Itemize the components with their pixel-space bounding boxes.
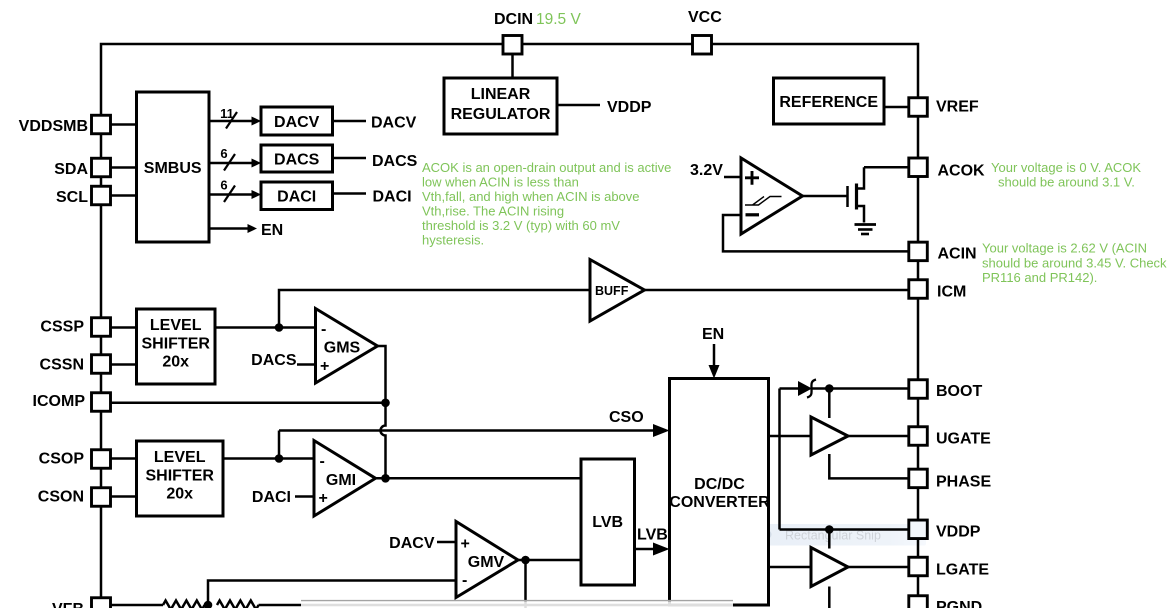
pin VDDSMB (92, 115, 111, 134)
pin VCC (693, 36, 712, 55)
svg-text:DACI: DACI (373, 189, 412, 206)
wire PHASE to UGATE driver (829, 454, 909, 478)
wire DACS block to DACS label (333, 157, 367, 160)
pin PHASE (909, 469, 928, 488)
node junction dot CSO tap (275, 454, 284, 463)
pin ICM (909, 280, 928, 299)
svg-text:Vth,rise. The ACIN rising: Vth,rise. The ACIN rising (422, 204, 564, 219)
wire comparator minus feedback from ACIN (723, 215, 909, 251)
svg-text:SMBUS: SMBUS (144, 160, 202, 177)
pin SDA (92, 158, 111, 177)
svg-text:DACS: DACS (372, 153, 418, 170)
svg-text:REFERENCE: REFERENCE (779, 94, 878, 111)
transistor Q-ACOK open-drain mosfet (846, 186, 849, 207)
svg-text:BOOT: BOOT (936, 383, 982, 400)
svg-text:ICOMP: ICOMP (33, 393, 86, 410)
svg-text:LGATE: LGATE (936, 562, 989, 579)
svg-text:LVB: LVB (637, 527, 668, 544)
wire CSO tap down to level shifter output (278, 431, 281, 459)
wire BUFF output to ICM pin (645, 289, 910, 292)
svg-text:REGULATOR: REGULATOR (451, 106, 551, 123)
svg-text:LVB: LVB (592, 514, 623, 531)
pin LGATE (909, 557, 928, 576)
svg-text:+: + (319, 490, 328, 507)
wire SCL to SMBUS (111, 194, 137, 197)
pin ACOK (909, 158, 928, 177)
wire linear regulator to VDDP label (557, 104, 600, 107)
pin VFB (92, 598, 111, 608)
svg-text:DACS: DACS (251, 352, 297, 369)
wire reference to VREF pin (884, 106, 909, 109)
pin CSSN (92, 355, 111, 374)
wire level shifter output to GMS minus (215, 326, 316, 329)
svg-text:Your voltage is 0 V. ACOK: Your voltage is 0 V. ACOK (991, 160, 1141, 175)
svg-text:+: + (461, 536, 470, 553)
wire UGATE driver output to UGATE pin (848, 435, 909, 438)
op-amp GMV (456, 522, 518, 598)
svg-text:6: 6 (220, 178, 227, 193)
wire VDDSMB to SMBUS (111, 123, 137, 126)
wire DC/DC to LGATE driver input (769, 566, 812, 569)
pin CSON (92, 488, 111, 507)
DACS block (261, 145, 333, 172)
op-amp GMS (316, 309, 378, 384)
wire DACV block to DACV label (333, 120, 367, 123)
svg-text:SHIFTER: SHIFTER (141, 336, 210, 353)
wire BUFF input from level shifter node (279, 290, 590, 328)
LVB block (581, 459, 635, 585)
svg-text:threshold is 3.2 V (typ) with: threshold is 3.2 V (typ) with 60 mV (422, 218, 620, 233)
svg-text:3.2V: 3.2V (690, 162, 723, 179)
ground (855, 223, 877, 226)
op-amp GMI (314, 441, 376, 517)
svg-text:PR116 and PR142).: PR116 and PR142). (982, 270, 1097, 285)
wire DACS to GMS plus (297, 363, 316, 366)
svg-text:PGND: PGND (936, 599, 982, 608)
pin ACIN (909, 242, 928, 261)
pin DCIN (503, 36, 522, 55)
driver U-LGATE (811, 548, 848, 587)
svg-text:DACV: DACV (274, 114, 320, 131)
svg-text:VDDP: VDDP (936, 524, 981, 541)
svg-text:SDA: SDA (54, 161, 88, 178)
svg-text:-: - (320, 453, 325, 470)
svg-text:VCC: VCC (688, 9, 722, 26)
svg-text:VFB: VFB (52, 601, 84, 608)
svg-text:should be around 3.1 V.: should be around 3.1 V. (998, 174, 1135, 189)
wire CSSN to level shifter (111, 363, 137, 366)
svg-text:GMV: GMV (468, 554, 505, 571)
snip tooltip icon (763, 530, 772, 539)
diode D-BOOT schottky (798, 381, 812, 396)
resistor R2 (217, 601, 259, 608)
pin VREF (909, 98, 928, 117)
svg-text:low when ACIN is less than: low when ACIN is less than (422, 174, 579, 189)
svg-text:CSON: CSON (38, 489, 84, 506)
node junction dot ICOMP (381, 399, 390, 408)
linear regulator U-LINREG (444, 78, 557, 134)
wire DC/DC to UGATE driver input (769, 435, 812, 438)
svg-text:DACV: DACV (371, 115, 417, 132)
svg-text:DC/DC: DC/DC (694, 476, 745, 493)
svg-text:20x: 20x (162, 354, 189, 371)
svg-text:6: 6 (220, 146, 227, 161)
wire diode to BOOT pin (813, 387, 910, 390)
svg-text:DACV: DACV (389, 535, 435, 552)
node junction dot GMV output (521, 556, 530, 565)
svg-text:SHIFTER: SHIFTER (145, 468, 214, 485)
wire GMV minus feedback from divider (208, 581, 456, 606)
comparator U-ACOK with hysteresis (741, 158, 803, 234)
svg-text:ICM: ICM (937, 284, 966, 301)
node junction dot divider (204, 601, 213, 608)
wire SMBUS EN output (209, 227, 250, 230)
svg-text:PHASE: PHASE (936, 474, 991, 491)
wire CSOP to level shifter (111, 457, 137, 460)
snip tooltip overlay background (754, 524, 926, 546)
svg-text:Vth,fall, and high when ACIN i: Vth,fall, and high when ACIN is above (422, 189, 640, 204)
pin UGATE (909, 427, 928, 446)
wire divider to GMV output net (259, 604, 671, 607)
pin ICOMP (92, 393, 111, 412)
svg-text:VDDSMB: VDDSMB (19, 118, 88, 135)
svg-text:DCIN: DCIN (494, 11, 533, 28)
wire CSSP to level shifter (111, 326, 137, 329)
wire GMV output to LVB (518, 559, 581, 562)
wire comparator output to mosfet gate (803, 195, 848, 198)
svg-text:UGATE: UGATE (936, 431, 991, 448)
wire mosfet drain to ACOK pin (864, 166, 909, 169)
wire level shifter output to GMI minus (223, 457, 314, 460)
bus wire SMBUS to DACS 6-bit (209, 162, 254, 165)
wire vertical with hop over CSO (381, 403, 386, 479)
svg-text:BUFF: BUFF (595, 284, 629, 298)
wire LGATE driver output to LGATE pin (848, 566, 909, 569)
driver U-UGATE (811, 417, 848, 455)
svg-text:11: 11 (220, 106, 234, 121)
wire VFB to divider (111, 604, 164, 607)
svg-text:ACOK: ACOK (938, 163, 986, 180)
pin CSOP (92, 450, 111, 469)
wire CSON to level shifter (111, 495, 137, 498)
bottom ui strip overlay (301, 601, 733, 608)
svg-text:GMS: GMS (324, 340, 361, 357)
svg-text:VDDP: VDDP (607, 99, 652, 116)
pin BOOT (909, 380, 928, 399)
svg-text:20x: 20x (166, 486, 193, 503)
node junction dot VDDP (825, 525, 834, 534)
svg-text:CSO: CSO (609, 409, 644, 426)
wire VDDP rail to boot diode (778, 389, 781, 530)
wire LVB output to DC/DC converter (635, 548, 655, 551)
svg-text:EN: EN (261, 222, 283, 239)
bus wire SMBUS to DACI 6-bit (209, 193, 254, 196)
svg-text:19.5 V: 19.5 V (536, 11, 581, 28)
wire GMV output down to feedback net (524, 560, 527, 608)
svg-text:VREF: VREF (936, 99, 979, 116)
wire GMS output to vertical node (378, 346, 386, 403)
wire VDDP down to LGATE driver (828, 530, 831, 549)
svg-text:DACI: DACI (252, 489, 291, 506)
wire ICOMP to junction (111, 402, 386, 405)
DACV block (261, 107, 333, 135)
svg-text:ACOK is an open-drain output a: ACOK is an open-drain output and is acti… (422, 160, 671, 175)
wire DACI to GMI plus (295, 495, 314, 498)
wire CSO to DC/DC converter (279, 429, 655, 432)
svg-text:LEVEL: LEVEL (154, 449, 206, 466)
DC/DC converter block (670, 379, 769, 606)
svg-text:GMI: GMI (326, 472, 356, 489)
svg-text:DACI: DACI (277, 189, 316, 206)
wire DACV to GMV plus (437, 541, 456, 544)
svg-text:-: - (321, 321, 326, 338)
buffer BUFF (590, 260, 645, 322)
level shifter 20x CSS block (137, 309, 216, 384)
svg-text:CSOP: CSOP (39, 451, 85, 468)
svg-text:SCL: SCL (56, 189, 88, 206)
svg-text:Your voltage is 2.62 V (ACIN: Your voltage is 2.62 V (ACIN (982, 241, 1147, 256)
reference block (774, 78, 885, 124)
svg-text:hysteresis.: hysteresis. (422, 232, 484, 247)
resistor R1 (163, 601, 205, 608)
SMBUS block (137, 92, 210, 242)
node junction dot BOOT (825, 384, 834, 393)
bus wire SMBUS to DACV 11-bit (209, 120, 254, 123)
wire EN into DC/DC converter (713, 344, 716, 370)
wire SDA to SMBUS (111, 166, 137, 169)
wire DACI block to DACI label (333, 192, 367, 195)
pin SCL (92, 186, 111, 205)
svg-text:DACS: DACS (274, 152, 320, 169)
level shifter 20x CSO block (137, 441, 224, 516)
pin CSSP (92, 318, 111, 337)
node junction dot GMI output (381, 474, 390, 483)
svg-text:LEVEL: LEVEL (150, 317, 202, 334)
svg-text:ACIN: ACIN (938, 246, 977, 263)
svg-text:CONVERTER: CONVERTER (669, 494, 770, 511)
pin VDDP (909, 520, 928, 539)
wire VDDP line to VDDP pin (780, 528, 910, 531)
node junction dot BUFF tap (275, 323, 284, 332)
svg-text:EN: EN (702, 326, 724, 343)
wire 3.2V to comparator plus (724, 176, 741, 179)
wire DCIN stub to linear regulator (511, 54, 514, 78)
svg-text:CSSP: CSSP (40, 319, 84, 336)
wire GMI output to LVB (376, 477, 582, 480)
svg-text:LINEAR: LINEAR (471, 86, 531, 103)
svg-text:-: - (462, 572, 467, 589)
wire BOOT down to UGATE driver (828, 389, 831, 419)
DACI block (261, 182, 333, 210)
svg-text:CSSN: CSSN (40, 357, 84, 374)
pin PGND (909, 596, 928, 608)
top bus wire DCIN-VCC with side borders (101, 44, 918, 608)
svg-text:should be around 3.45 V. Check: should be around 3.45 V. Check (982, 256, 1167, 271)
svg-text:+: + (320, 358, 329, 375)
wire LGATE driver to PGND rail (828, 587, 831, 608)
